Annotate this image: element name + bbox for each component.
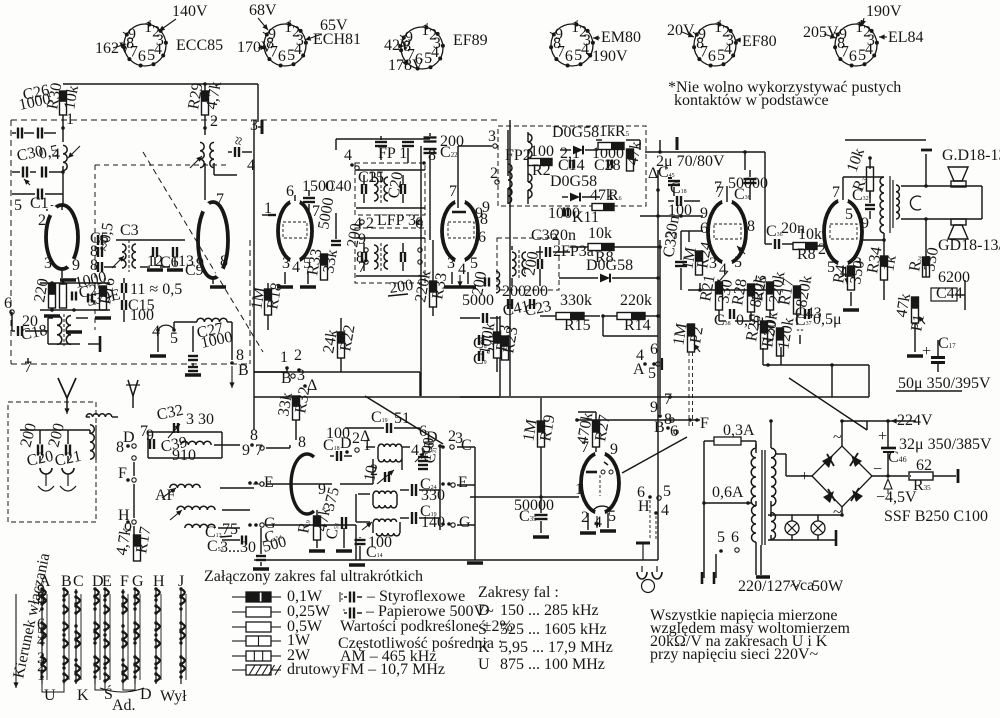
- cap C33 20n: [660, 214, 689, 290]
- LFP3a left cap: [344, 222, 366, 262]
- svg-text:7: 7: [358, 259, 366, 276]
- svg-text:R8: R8: [797, 246, 816, 263]
- svg-text:K11: K11: [572, 209, 599, 226]
- svg-text:kontaktów w podstawce: kontaktów w podstawce: [674, 92, 829, 109]
- dashdot through tube: [253, 483, 332, 485]
- band D: [478, 602, 599, 619]
- wire R18: [267, 283, 269, 330]
- resistor R33 33k: [304, 247, 341, 280]
- dashed shield right: [249, 240, 251, 364]
- svg-text:7: 7: [216, 191, 224, 208]
- svg-text:G: G: [459, 514, 471, 531]
- label LFP3a: [377, 212, 423, 229]
- label 3 x658: [648, 165, 660, 192]
- bridge diode NW: [850, 453, 862, 467]
- cap C13 pair: [122, 281, 182, 324]
- cap C18c 100: [323, 425, 352, 461]
- hwire y396 left: [254, 396, 500, 398]
- resistor R25 220k: [749, 270, 788, 310]
- bandfilter T3 coils: [356, 519, 400, 536]
- tube ECH81 envelope: [278, 196, 312, 266]
- inner dashed EF89: [448, 222, 474, 238]
- wire into ECH81 top: [294, 195, 296, 201]
- svg-text:5: 5: [287, 47, 295, 64]
- arrow B down: [229, 362, 248, 388]
- svg-text:3: 3: [282, 255, 290, 272]
- capacitor C27: [188, 356, 198, 371]
- svg-text:10: 10: [361, 464, 381, 483]
- wires L4 area: [116, 240, 185, 267]
- node 8 right of FP1: [422, 147, 436, 165]
- wire y152 rail: [645, 137, 765, 170]
- svg-text:140: 140: [421, 514, 445, 531]
- svg-text:H: H: [638, 498, 650, 515]
- svg-text:200: 200: [524, 283, 548, 300]
- tube socket EM80: [549, 19, 595, 68]
- LFP3a right cap: [401, 252, 405, 262]
- FP2 secondary coil: [528, 134, 532, 198]
- hwire y420 mid: [575, 418, 700, 422]
- svg-text:50W: 50W: [812, 578, 844, 595]
- svg-text:9: 9: [839, 26, 847, 43]
- svg-text:1: 1: [284, 19, 292, 36]
- cap C39 910: [150, 434, 196, 464]
- cap C18b: [668, 180, 700, 219]
- wire R29 down: [204, 84, 206, 135]
- resistor R32 33k: [275, 385, 313, 440]
- svg-text:4: 4: [431, 44, 439, 61]
- label EM80: [593, 29, 641, 46]
- transformer ground: [756, 545, 770, 577]
- svg-text:ECC85: ECC85: [176, 37, 223, 54]
- svg-text:4: 4: [154, 41, 162, 58]
- node 6 input: [4, 295, 14, 314]
- resistor R28 820k: [729, 274, 769, 312]
- svg-text:205V: 205V: [803, 24, 839, 41]
- svg-text:0,6A: 0,6A: [712, 484, 744, 501]
- antenna 2 funnel: [126, 380, 140, 408]
- svg-text:K: K: [478, 639, 490, 656]
- B+ bus 224V: [842, 412, 933, 429]
- svg-text:7: 7: [716, 184, 724, 201]
- svg-text:D: D: [123, 429, 135, 446]
- contact 2 under FP1: [354, 215, 374, 232]
- resistor R4 350: [830, 259, 868, 290]
- svg-text:R14: R14: [624, 317, 651, 334]
- contacts CEG mid col: [0, 0, 1, 1]
- FP2 bottom coil: [508, 189, 512, 203]
- inner grid dashed box ECH81: [283, 222, 307, 238]
- svg-text:EL84: EL84: [888, 29, 924, 46]
- wire EL84 anode to OT: [843, 177, 886, 242]
- coil L6 horizontal: [195, 318, 234, 352]
- svg-text:9: 9: [72, 257, 80, 274]
- label FP1: [378, 145, 407, 162]
- svg-text:2: 2: [38, 212, 46, 229]
- diode D1 DOG58: [552, 124, 599, 154]
- svg-text:Wył: Wył: [160, 688, 187, 705]
- cap near osc: [228, 135, 252, 157]
- svg-text:4: 4: [865, 41, 873, 58]
- dial lamps wires: [768, 515, 842, 546]
- cap C36b 20n EL84: [765, 152, 805, 249]
- label 1000 C25 330E: [73, 269, 122, 310]
- arrow osc coil: [190, 156, 202, 168]
- node 2: [203, 113, 218, 130]
- svg-text:7: 7: [449, 183, 457, 200]
- voltage 190V at EM80: [586, 48, 628, 65]
- capacitor C31: [12, 189, 63, 200]
- wires band switch: [134, 445, 254, 535]
- grounds L4 area: [147, 268, 183, 272]
- svg-text:D: D: [340, 435, 352, 452]
- svg-text:3: 3: [488, 128, 496, 145]
- svg-text:4: 4: [152, 323, 160, 340]
- capacitor C30: [12, 167, 36, 178]
- grid cap bar: [46, 205, 52, 215]
- vwire x500: [500, 120, 510, 396]
- svg-text:G: G: [132, 573, 144, 590]
- legend heading: [204, 568, 423, 585]
- svg-text:2: 2: [210, 113, 218, 130]
- label 0,6A: [702, 484, 752, 505]
- resistor R18b: [97, 276, 118, 310]
- label AF: [155, 487, 176, 504]
- svg-text:R2: R2: [532, 162, 551, 179]
- pins UKF triode: [298, 434, 326, 498]
- resistor R18 1M: [248, 281, 285, 315]
- arrow on L4: [112, 256, 124, 268]
- transformer secondary HT: [769, 419, 776, 515]
- 2FP3a dashed box: [497, 238, 559, 290]
- wire ant transformer: [12, 312, 88, 344]
- antenna input transformer: [57, 314, 71, 346]
- resistor R16 220: [31, 277, 55, 308]
- tube socket EL84: [833, 19, 879, 68]
- note wszystkie line1: [650, 607, 837, 624]
- wire af bottom: [222, 536, 246, 545]
- coil L1 oscillator: [63, 145, 80, 170]
- mains transformer primary: [751, 441, 756, 575]
- contact D mid: [340, 428, 371, 454]
- cap C22 200: [424, 133, 465, 175]
- ground stub: [88, 336, 100, 352]
- wire EF89 top: [421, 128, 499, 396]
- resistor R34 1k: [864, 245, 900, 280]
- cap C21 200: [45, 421, 82, 469]
- capacitor C40: [303, 190, 315, 212]
- wire R27: [578, 412, 596, 452]
- dashed box inner FM: [95, 165, 230, 330]
- ground bars row: [44, 316, 111, 332]
- wire x660 vertical: [659, 240, 661, 396]
- coil af3: [185, 524, 215, 528]
- svg-text:Ad.: Ad.: [112, 697, 136, 714]
- label C3: [120, 222, 139, 239]
- pin 3 label: [44, 255, 80, 274]
- cap C19b 140: [400, 503, 445, 531]
- vwire x670 lower: [669, 420, 671, 560]
- svg-text:1k: 1k: [599, 123, 615, 140]
- ground T1a: [60, 278, 76, 282]
- mains left wire: [702, 441, 704, 584]
- label 220/127V 50W: [738, 577, 844, 595]
- resistor R5 1k: [598, 123, 630, 150]
- svg-text:U: U: [44, 687, 56, 704]
- svg-text:U: U: [478, 656, 490, 673]
- svg-text:1: 1: [280, 349, 288, 366]
- svg-text:4: 4: [724, 41, 732, 58]
- cap C53: [323, 517, 352, 551]
- FP1 wires: [356, 170, 425, 208]
- cap C35 50000: [514, 497, 554, 537]
- contact cluster 9 B 7: [242, 427, 264, 459]
- dial lamp 1: [785, 521, 799, 535]
- resistor R2 100: [528, 143, 554, 179]
- switch matrix row numbers: [37, 582, 45, 684]
- contact B cluster: [650, 391, 678, 440]
- inner dashed EL84: [830, 224, 857, 239]
- svg-text:11 ≈ 0,5: 11 ≈ 0,5: [130, 281, 182, 298]
- resistor R15 330k: [540, 292, 605, 334]
- svg-text:1: 1: [66, 111, 74, 128]
- EM80 contacts 6 5: [637, 483, 671, 501]
- svg-text:5: 5: [734, 254, 742, 271]
- fuse 0,3A: [704, 422, 755, 445]
- note about empty socket pins: [668, 79, 901, 109]
- voltage 65V at ECH81: [305, 17, 348, 41]
- legend styroflexowe: [340, 588, 465, 605]
- tube EL84 envelope: [824, 195, 862, 269]
- note wszystkie line4: [650, 646, 819, 663]
- resistor R24b 330: [906, 246, 942, 277]
- transformer secondary LT: [771, 512, 776, 540]
- EF89 cathode: [444, 272, 476, 287]
- svg-text:190V: 190V: [866, 3, 902, 20]
- label 2FP3a: [553, 243, 594, 260]
- triode T1a ECC85: [46, 205, 78, 269]
- speaker lower GD18-13/2: [938, 219, 1000, 254]
- label 5000 right: [462, 292, 494, 309]
- banana plugs: [38, 468, 76, 491]
- label SSF B250 C100: [884, 508, 988, 525]
- resistor R24 1M: [679, 240, 728, 285]
- svg-text:4: 4: [661, 502, 669, 519]
- svg-text:−4,5V: −4,5V: [876, 489, 917, 506]
- svg-text:2: 2: [294, 347, 302, 364]
- svg-text:6: 6: [700, 220, 708, 237]
- legend czestotliwosc: [338, 635, 502, 652]
- label 5 C1 2: [14, 195, 49, 229]
- svg-text:6: 6: [4, 295, 12, 312]
- band S: [478, 619, 607, 638]
- switch band labels: [44, 684, 187, 714]
- resistor R27 820k: [776, 274, 815, 314]
- svg-text:1k: 1k: [880, 254, 900, 273]
- caps C31 100: [417, 436, 441, 469]
- svg-text:D: D: [478, 602, 490, 619]
- speaker upper GD18-13/2: [942, 147, 1000, 187]
- svg-text:B: B: [238, 362, 249, 379]
- elko C45 2u: [656, 153, 725, 196]
- contacts 5 6 mains: [702, 529, 739, 584]
- voltage 178V at EF89: [388, 57, 424, 74]
- vertical wire x658: [657, 170, 659, 560]
- dashed gang coupling diagonal: [143, 152, 263, 352]
- svg-text:8: 8: [116, 439, 124, 456]
- cap C14 100: [349, 534, 392, 565]
- wires under T1a: [40, 281, 110, 312]
- voltage 205V at EL84: [803, 24, 839, 41]
- svg-text:7: 7: [664, 391, 672, 408]
- switch matrix bottom links: [42, 684, 135, 692]
- capacitor C18a: [12, 326, 48, 336]
- tube UKF triode: [291, 454, 314, 514]
- contacts G row left: [248, 515, 276, 532]
- resistor R26 150k: [743, 310, 781, 349]
- pot P2 1M: [670, 322, 707, 352]
- legend AM: [340, 648, 436, 665]
- svg-text:4: 4: [719, 261, 727, 278]
- arrow EF80: [737, 246, 745, 254]
- capacitor C4: [90, 257, 116, 274]
- svg-text:~: ~: [833, 504, 842, 521]
- svg-text:FP2: FP2: [505, 147, 531, 164]
- label 4 node: [247, 157, 255, 174]
- svg-text:200: 200: [388, 277, 414, 297]
- svg-text:B: B: [61, 573, 72, 590]
- tube EM80 envelope: [581, 448, 619, 518]
- capacitor C29b: [88, 294, 92, 303]
- bridge connections: [776, 419, 908, 517]
- wire C13: [123, 278, 125, 322]
- svg-text:50μ 350/395V: 50μ 350/395V: [898, 375, 991, 392]
- resistor R20 120k: [759, 316, 797, 356]
- bridge diode SW: [851, 488, 863, 502]
- svg-text:3...30: 3...30: [220, 539, 256, 556]
- svg-text:68V: 68V: [249, 2, 277, 19]
- svg-text:4: 4: [52, 146, 60, 163]
- brace under S Ad D: [100, 688, 144, 692]
- resistor 47k pot: [893, 292, 928, 333]
- svg-text:875 ... 100 MHz: 875 ... 100 MHz: [500, 656, 605, 673]
- svg-text:200: 200: [502, 283, 526, 300]
- switch H column1: [118, 507, 136, 534]
- svg-text:4: 4: [581, 41, 589, 58]
- wire det down: [603, 316, 658, 336]
- svg-text:162V: 162V: [95, 40, 131, 57]
- svg-text:10k: 10k: [588, 225, 612, 242]
- svg-text:~: ~: [833, 429, 842, 446]
- volume dashed link: [689, 352, 693, 428]
- cap C14 21: [558, 145, 585, 174]
- wires am ant box: [20, 430, 90, 462]
- FP1 coils: [374, 175, 388, 203]
- svg-text:9: 9: [242, 442, 250, 459]
- svg-text:1: 1: [363, 437, 371, 454]
- label FP2: [505, 147, 531, 164]
- svg-text:R8: R8: [595, 249, 614, 266]
- svg-text:4: 4: [294, 41, 302, 58]
- resistor R4v 47k: [624, 140, 645, 171]
- svg-text:2: 2: [366, 215, 374, 232]
- wire into EM80 pin1: [470, 496, 579, 498]
- arrow minus 4,5V: [876, 479, 917, 506]
- svg-text:4: 4: [292, 259, 300, 276]
- wire R30 to coil: [62, 115, 64, 142]
- FM detector coil pair L4 L5: [122, 240, 136, 272]
- verticals mid: [356, 447, 440, 560]
- capacitor C25: [72, 292, 76, 301]
- cap C19 51: [345, 409, 420, 433]
- label EF89: [453, 32, 488, 49]
- coil L ukf1: [178, 436, 218, 456]
- coil af1: [162, 484, 200, 498]
- vwire x904 b+: [904, 352, 906, 420]
- voltage 20V at EF80: [667, 22, 695, 39]
- diode DOG58 det: [559, 257, 660, 282]
- svg-text:224V: 224V: [897, 412, 933, 429]
- cathode grounds ECH81: [277, 272, 316, 287]
- svg-text:3: 3: [447, 255, 455, 272]
- coil right of EF89: [496, 271, 500, 293]
- contact D col2: [411, 423, 442, 462]
- label 1500 C40: [302, 178, 352, 195]
- label 200 pair: [469, 270, 490, 297]
- node 8 out: [230, 347, 244, 365]
- svg-text:2: 2: [352, 430, 360, 447]
- svg-text:4: 4: [344, 147, 352, 164]
- label C26 1000: [17, 82, 52, 114]
- label 5000 C41: [315, 196, 341, 245]
- contact A 4-6-5: [633, 341, 662, 382]
- voltage 162V at ECC85: [95, 40, 131, 57]
- antenna symbol: [58, 378, 76, 414]
- cap C43: [795, 305, 822, 331]
- cap 1000 C? bottom: [548, 205, 599, 226]
- svg-text:6: 6: [565, 48, 573, 65]
- bridge diode SE: [823, 489, 835, 503]
- svg-text:P2: P2: [687, 325, 707, 345]
- wire j287: [254, 371, 287, 373]
- svg-text:6: 6: [731, 529, 739, 546]
- svg-text:8: 8: [298, 434, 306, 451]
- 2FP3a cap: [521, 250, 542, 277]
- pin labels EF80: [700, 184, 755, 278]
- svg-text:C14: C14: [558, 157, 585, 174]
- resistor R14 220k: [603, 292, 660, 334]
- svg-text:5: 5: [717, 47, 725, 64]
- svg-text:5,95 ... 17,9 MHz: 5,95 ... 17,9 MHz: [500, 639, 613, 656]
- cap C20 200: [17, 421, 54, 469]
- wire right side net: [907, 256, 965, 356]
- resistor R19 1M: [520, 413, 558, 447]
- switch wire diagonal: [622, 437, 687, 473]
- tube socket EF80: [692, 19, 738, 68]
- contacts E row right: [441, 474, 468, 491]
- svg-text:6: 6: [138, 48, 146, 65]
- svg-text:C1: C1: [30, 195, 49, 212]
- contacts G row right: [441, 514, 471, 531]
- svg-text:8: 8: [90, 257, 98, 274]
- svg-text:100: 100: [530, 143, 554, 160]
- cap 50000 C36: [714, 170, 768, 203]
- note wszystkie line3: [650, 633, 828, 650]
- pin labels EM80: [575, 439, 618, 531]
- FP1 right cap: [385, 170, 406, 199]
- svg-text:150 ... 285 kHz: 150 ... 285 kHz: [500, 602, 599, 619]
- trimmer C32 3-30: [155, 402, 214, 438]
